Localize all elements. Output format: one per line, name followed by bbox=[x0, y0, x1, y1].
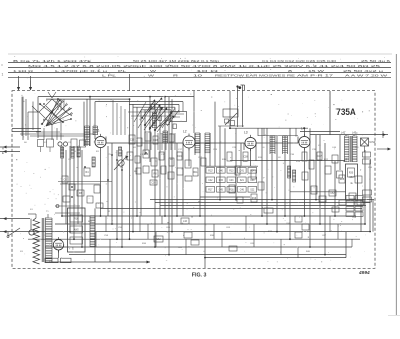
svg-text:L42: L42 bbox=[341, 132, 346, 135]
svg-text:FIG. 3: FIG. 3 bbox=[192, 273, 207, 279]
svg-text:50 25 100 4k7 1M 220k 8k2 0.1: 50 25 100 4k7 1M 220k 8k2 0.1 50p bbox=[133, 59, 220, 63]
svg-text:R17: R17 bbox=[208, 189, 213, 191]
svg-text:L4: L4 bbox=[301, 127, 305, 131]
svg-text:C41: C41 bbox=[240, 170, 245, 172]
svg-text:C44: C44 bbox=[250, 180, 255, 182]
svg-text:C15: C15 bbox=[130, 140, 135, 142]
svg-text:R19: R19 bbox=[252, 198, 257, 200]
svg-text:L 4700 pF 0.1 u: L 4700 pF 0.1 u bbox=[55, 69, 108, 73]
svg-text:R: R bbox=[173, 74, 178, 78]
svg-text:C46: C46 bbox=[240, 189, 245, 191]
svg-text:W: W bbox=[150, 69, 157, 73]
svg-text:AM P·R 17: AM P·R 17 bbox=[297, 74, 334, 78]
svg-text:A A W 7 20 W: A A W 7 20 W bbox=[345, 74, 388, 78]
svg-text:R13: R13 bbox=[229, 170, 234, 172]
svg-text:S22: S22 bbox=[250, 189, 255, 191]
svg-text:C42: C42 bbox=[208, 180, 213, 182]
svg-text:C18: C18 bbox=[153, 140, 158, 142]
svg-text:S21: S21 bbox=[240, 180, 245, 182]
svg-text:25 50 4x2 u: 25 50 4x2 u bbox=[343, 69, 384, 73]
svg-text:R16: R16 bbox=[74, 219, 79, 221]
svg-text:C47: C47 bbox=[317, 156, 322, 158]
svg-text:E: E bbox=[2, 151, 4, 155]
svg-text:C16: C16 bbox=[144, 154, 149, 156]
svg-text:C43: C43 bbox=[229, 180, 234, 182]
svg-text:M.SP: M.SP bbox=[370, 141, 376, 144]
svg-text:L PL: L PL bbox=[102, 74, 117, 78]
svg-text:10 Ω: 10 Ω bbox=[196, 69, 218, 73]
svg-text:RESTFOW EAR MOSWES RE: RESTFOW EAR MOSWES RE bbox=[215, 74, 295, 78]
svg-text:R25: R25 bbox=[340, 179, 345, 181]
svg-text:C19: C19 bbox=[177, 156, 182, 158]
svg-text:R30: R30 bbox=[349, 173, 354, 175]
svg-text:C57: C57 bbox=[349, 177, 354, 179]
svg-text:L3: L3 bbox=[244, 131, 248, 135]
svg-text:R12: R12 bbox=[208, 170, 213, 172]
svg-text:B Ca 7L 12h 1.2kΩ 47k: B Ca 7L 12h 1.2kΩ 47k bbox=[13, 59, 93, 63]
svg-text:1: 1 bbox=[2, 73, 4, 77]
svg-text:A: A bbox=[2, 147, 4, 151]
svg-text:1 kΩ Ω: 1 kΩ Ω bbox=[13, 69, 33, 73]
svg-text:10: 10 bbox=[193, 74, 203, 78]
svg-text:PL: PL bbox=[118, 69, 127, 73]
svg-text:R11: R11 bbox=[193, 172, 198, 174]
svg-text:MΩ 4.5 1.2 47 6.8 2x0.05 220pF: MΩ 4.5 1.2 47 6.8 2x0.05 220pF 100 350 5… bbox=[28, 64, 381, 68]
svg-text:735A: 735A bbox=[336, 106, 356, 117]
svg-text:C40: C40 bbox=[219, 170, 224, 172]
svg-text:C38: C38 bbox=[243, 157, 248, 159]
svg-text:L2: L2 bbox=[183, 130, 187, 134]
svg-text:25 50 4u 6: 25 50 4u 6 bbox=[361, 59, 391, 63]
svg-text:4994: 4994 bbox=[358, 270, 370, 276]
svg-text:C62: C62 bbox=[156, 239, 161, 241]
svg-text:C1 C4 C9 C12 C20 C26 C35 C40: C1 C4 C9 C12 C20 C26 C35 C40 bbox=[262, 59, 337, 63]
svg-text:AW2: AW2 bbox=[74, 229, 80, 232]
svg-text:R15: R15 bbox=[219, 180, 224, 182]
svg-text:C30: C30 bbox=[151, 183, 156, 185]
svg-text:L43: L43 bbox=[352, 132, 357, 135]
svg-text:C45: C45 bbox=[219, 189, 224, 191]
svg-text:15 W: 15 W bbox=[308, 69, 325, 73]
